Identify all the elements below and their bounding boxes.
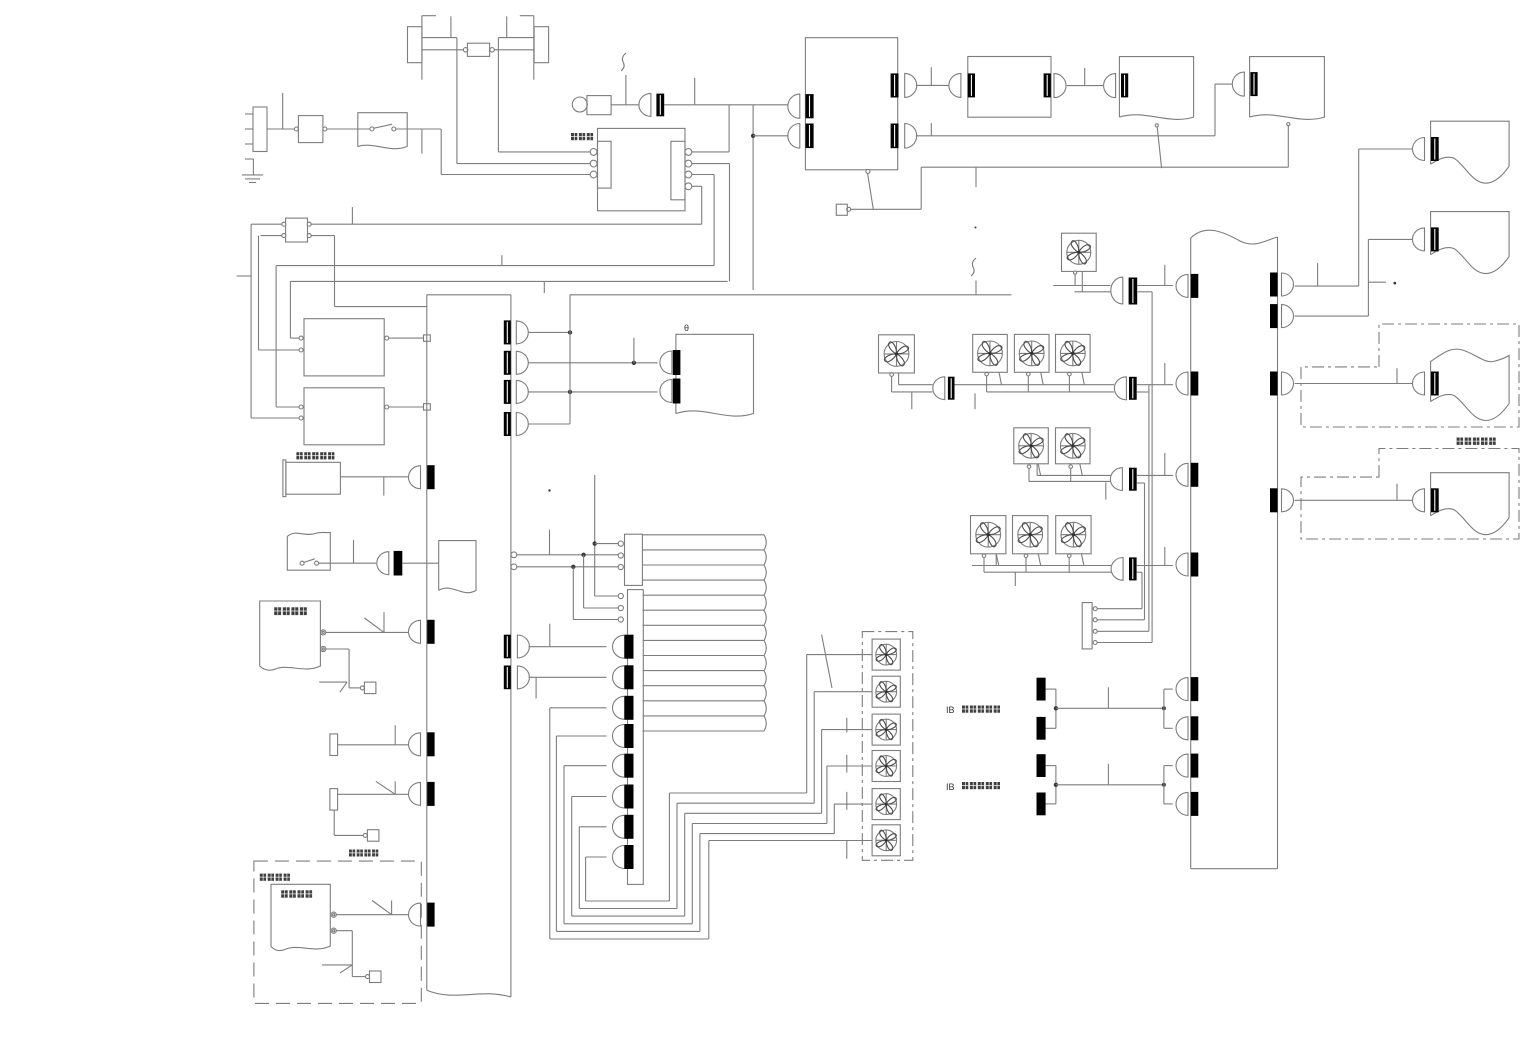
svg-text:IB: IB	[946, 782, 955, 792]
svg-text:IB: IB	[946, 705, 955, 715]
svg-text:θ: θ	[684, 323, 689, 333]
